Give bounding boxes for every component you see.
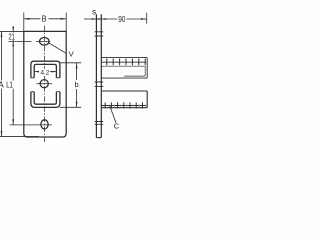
90 right extension line: [146, 13, 148, 24]
svg-text:V: V: [69, 49, 74, 58]
top C-rail serration line: [101, 61, 146, 63]
top C-rail outer contour: [101, 57, 147, 78]
top hole center line / 21 extension: [9, 41, 51, 43]
label V: [69, 49, 74, 58]
svg-text:90: 90: [118, 14, 125, 24]
side view vertical bar: [96, 14, 101, 137]
lower U-channel inner: [34, 92, 56, 105]
front view plate outline: [24, 31, 66, 137]
bottom C-rail teeth (strong): [105, 102, 142, 108]
bottom C-rail outer contour: [101, 91, 147, 108]
svg-text:C: C: [114, 121, 120, 130]
C leader line: [110, 106, 116, 123]
middle hole: [40, 80, 48, 88]
side bar top cap: [96, 18, 101, 20]
lower U-channel outer: [31, 92, 60, 108]
B dimension line + arrows: [24, 18, 66, 20]
bottom edge extension line (A): [0, 136, 39, 138]
svg-text:B: B: [42, 14, 47, 24]
label C: [114, 121, 120, 130]
svg-text:A: A: [0, 80, 4, 90]
middle hole horizontal crosshair: [37, 83, 53, 85]
bottom C-rail teeth (weak): [108, 104, 145, 107]
mechanical drawing: mounting bracket front view (left) + side view with serrated C-rails (right): [0, 0, 150, 150]
L1 bottom arrow (inside, pointing down): [12, 119, 14, 125]
svg-text:s: s: [92, 7, 96, 16]
top C-rail teeth (weak): [104, 61, 142, 63]
bottom slotted hole: [41, 120, 48, 129]
centerline through holes (dash-dot): [43, 26, 45, 143]
label 21: [7, 31, 17, 41]
A dimension line: [1, 31, 3, 136]
svg-text:21: 21: [9, 31, 15, 41]
break tick pair top: [95, 32, 104, 36]
top C-rail teeth (strong): [107, 59, 145, 66]
label s: [92, 7, 96, 16]
top edge extension line (to left margin): [0, 30, 24, 32]
svg-text:L1: L1: [6, 80, 13, 90]
label B: [41, 14, 48, 24]
21 bottom / L1 top arrow (below line, pointing up): [12, 42, 14, 47]
svg-text:4.2: 4.2: [41, 70, 50, 77]
upper U-channel outer: [31, 61, 60, 78]
label A: [0, 80, 4, 90]
label b: [74, 80, 79, 89]
text labels: [0, 7, 126, 130]
21 / L1 dimension line: [12, 27, 14, 125]
4.2 dimension line + arrows: [34, 71, 56, 73]
s dimension line + arrows: [84, 18, 106, 20]
label L1: [6, 80, 13, 90]
label 4.2: [40, 69, 50, 77]
bottom hole center line / L1 extension: [10, 124, 53, 126]
top C-rail flange bottom line: [101, 65, 145, 67]
top slotted hole: [40, 38, 50, 46]
label 90: [118, 14, 125, 24]
bottom C-rail serration line: [101, 105, 146, 107]
upper U-channel inner: [34, 64, 56, 77]
B dimension: extension lines: [24, 13, 66, 32]
top C-rail inner lip: [124, 66, 145, 76]
break tick pair bottom: [95, 122, 104, 125]
upper U-channel leg end caps: [31, 77, 60, 79]
break tick pair middle: [95, 82, 104, 86]
21 top arrow (outside, pointing down): [12, 27, 14, 32]
V leader line: [48, 43, 66, 54]
90 dimension line + arrows: [101, 18, 146, 20]
b dimension extension lines: [60, 63, 81, 108]
b dimension line + arrows: [76, 63, 78, 108]
lower U-channel leg end caps: [31, 91, 60, 93]
side bar bottom cap: [96, 137, 101, 139]
svg-text:b: b: [75, 80, 79, 89]
